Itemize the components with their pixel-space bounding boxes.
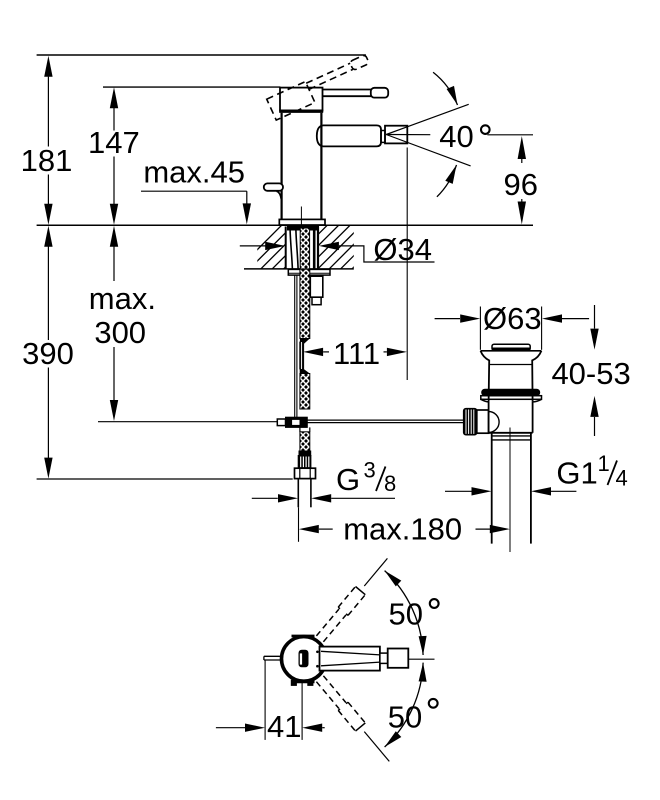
spray fan lower line xyxy=(386,135,470,166)
svg-text:41: 41 xyxy=(267,709,301,744)
spout xyxy=(323,125,381,146)
svg-text:max.45: max.45 xyxy=(143,155,245,190)
linkage joint block xyxy=(286,417,308,427)
dimension 181 line xyxy=(47,77,49,147)
svg-text:40: 40 xyxy=(439,119,473,154)
top-view lever neck xyxy=(380,653,388,663)
dimension 390 line xyxy=(47,247,49,341)
countertop top line xyxy=(37,224,533,226)
dimension D63 right arrow xyxy=(542,314,562,322)
shank curved tube xyxy=(290,230,292,269)
top-view body circle xyxy=(282,637,327,682)
hose ribbed fitting xyxy=(298,456,311,469)
drain tailpipe xyxy=(491,433,493,544)
hose end collar xyxy=(299,451,311,456)
dimension D63 left arrow xyxy=(435,318,460,320)
drain plug cap xyxy=(492,344,530,350)
svg-text:G1: G1 xyxy=(556,455,597,490)
horizontal linkage rod xyxy=(307,419,463,421)
dimension D34 left arrow xyxy=(240,245,267,247)
aerator neck xyxy=(381,131,385,143)
handle grip xyxy=(371,88,388,98)
dimension 41 xyxy=(216,727,245,729)
mounting nut xyxy=(310,276,323,297)
dimension G3/8 arrows xyxy=(252,497,278,499)
pop-up vertical rod xyxy=(294,275,296,417)
svg-text:3: 3 xyxy=(364,458,376,483)
mounting hole left wall xyxy=(285,227,287,269)
dimension D34 right arrow xyxy=(319,242,339,250)
shank right tube wall xyxy=(313,227,316,269)
drain side port xyxy=(477,410,489,433)
top reference line (handle raised height) xyxy=(37,54,366,56)
svg-text:300: 300 xyxy=(94,315,146,350)
40 degree upper arc xyxy=(433,72,457,105)
svg-text:40-53: 40-53 xyxy=(551,356,630,391)
lower 50 arc xyxy=(385,663,424,747)
dimension 147 line xyxy=(113,108,115,131)
svg-text:50: 50 xyxy=(388,699,422,734)
dimension 40-53 lower xyxy=(590,396,598,417)
dimension G1 1/4 arrows xyxy=(445,490,472,492)
svg-text:Ø63: Ø63 xyxy=(483,301,542,336)
upper 50 arc xyxy=(385,571,424,655)
linkage left extension line xyxy=(98,421,277,423)
dashed handle rotated down 50 xyxy=(323,676,346,703)
dimension 111 left arrow xyxy=(303,348,323,356)
top-view circle flats xyxy=(292,635,315,638)
dimension 96 leader xyxy=(487,134,533,136)
faucet centerline xyxy=(300,207,302,225)
reference line top of faucet body xyxy=(103,86,280,88)
countertop bottom line xyxy=(244,268,354,270)
top-view screw dots xyxy=(316,651,319,654)
faucet body left side xyxy=(281,113,283,220)
dimension 96 line xyxy=(518,136,526,159)
drain bell inner line xyxy=(489,364,532,366)
40 degree lower arc xyxy=(437,165,457,197)
dimension 111 right arrow xyxy=(384,351,387,353)
dimension 40-53 upper xyxy=(594,305,596,329)
svg-text:G: G xyxy=(336,462,360,497)
svg-text:181: 181 xyxy=(21,143,73,178)
svg-text:50: 50 xyxy=(389,596,423,631)
faucet body right side xyxy=(320,113,322,220)
flex hose thin tube xyxy=(300,342,304,369)
svg-text:8: 8 xyxy=(384,471,396,496)
svg-text:max.: max. xyxy=(89,281,156,316)
svg-text:max.180: max.180 xyxy=(343,512,462,547)
dashed raised handle xyxy=(267,54,375,120)
linkage adjuster knob xyxy=(463,408,477,435)
svg-text:111: 111 xyxy=(333,336,380,371)
base seal ring xyxy=(288,226,319,230)
hose end reference line (390 bottom) xyxy=(37,478,293,480)
dimension 41 extension lines xyxy=(264,660,266,740)
threaded shank section xyxy=(300,228,309,269)
handle lever bar xyxy=(323,89,372,91)
faucet handle cap xyxy=(280,88,323,111)
drain centerline xyxy=(509,428,511,553)
drain bell left xyxy=(481,351,490,402)
svg-text:96: 96 xyxy=(504,167,538,202)
drain lower flange xyxy=(481,396,542,400)
spray axis line xyxy=(386,134,430,136)
spray fan upper line xyxy=(386,104,469,134)
top-view lever grip xyxy=(388,649,409,668)
upper 50 extension line xyxy=(364,558,387,586)
drain seal washer xyxy=(482,389,540,396)
faucet cap bottom thick edge xyxy=(279,109,323,112)
hose connection nut xyxy=(295,468,316,478)
D63 extension lines xyxy=(479,307,481,350)
washer plate xyxy=(288,269,330,275)
top-view cartridge D xyxy=(299,650,308,667)
svg-text:Ø34: Ø34 xyxy=(373,232,432,267)
top-view axis line xyxy=(409,658,435,660)
spout tip extension line xyxy=(406,148,408,381)
dimension max.300 line xyxy=(113,247,115,282)
pop-up rod knob xyxy=(264,183,283,190)
lower 50 extension line xyxy=(364,732,389,762)
top-view pop-up stub xyxy=(264,655,282,657)
faucet base flange xyxy=(279,219,325,225)
svg-text:390: 390 xyxy=(22,336,74,371)
dashed handle rotated up 50 xyxy=(316,609,339,636)
top-view lever bar xyxy=(320,647,380,671)
top-view base tabs xyxy=(291,680,296,685)
faucet axis extension line xyxy=(298,507,300,542)
drain coupling ring xyxy=(492,435,531,437)
svg-text:4: 4 xyxy=(616,465,628,490)
aerator xyxy=(385,126,407,144)
dimension max.45 leader xyxy=(141,190,247,192)
svg-text:147: 147 xyxy=(88,125,140,160)
svg-text:1: 1 xyxy=(598,451,610,476)
hose below linkage xyxy=(299,427,301,431)
linkage left stub xyxy=(277,419,285,426)
dimension max.180 xyxy=(299,525,319,533)
drain bell right xyxy=(532,351,541,402)
G3/8 pipe xyxy=(297,479,299,508)
flex hose upper section xyxy=(300,269,310,338)
flex hose lower section xyxy=(300,369,310,374)
drain flange top xyxy=(481,350,542,352)
drain body xyxy=(488,402,490,433)
